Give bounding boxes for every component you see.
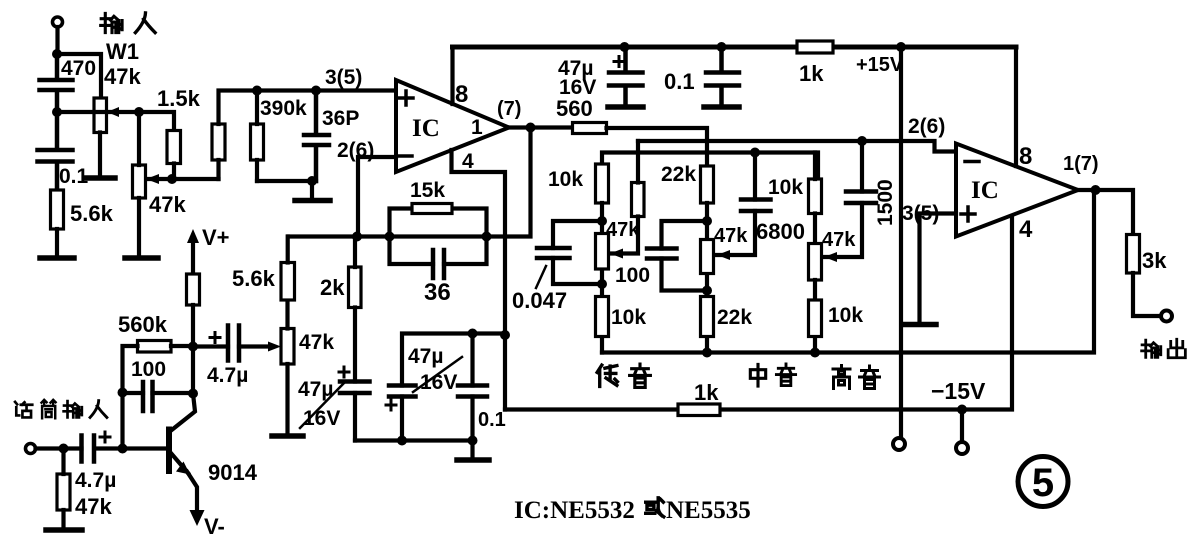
wire: tone row2 to opamp2	[638, 141, 956, 152]
label IC type note	[514, 497, 751, 524]
node dot bass lower	[597, 279, 607, 289]
svg-text:47k: 47k	[104, 64, 141, 89]
node dot collector top	[188, 342, 198, 352]
node: input terminal	[53, 17, 63, 27]
label: 输入 input	[101, 13, 155, 33]
node dot rail x901	[896, 42, 906, 52]
svg-text:IC:NE5532: IC:NE5532	[514, 497, 635, 524]
op-amp U2 plus	[961, 207, 975, 221]
svg-text:2k: 2k	[320, 275, 345, 300]
capacitor 4.7u out	[193, 326, 268, 388]
node dot 390k top	[252, 86, 262, 96]
svg-text:36: 36	[424, 279, 451, 306]
node dot bottom row x402	[397, 436, 407, 446]
potentiometer 47k mic	[281, 300, 334, 434]
svg-text:4.7µ: 4.7µ	[207, 364, 248, 387]
node dot ground 36P	[307, 176, 317, 186]
svg-text:100: 100	[131, 358, 166, 381]
resistor 1k top	[797, 41, 833, 86]
node dot feedback A	[352, 232, 362, 242]
svg-text:560k: 560k	[118, 312, 168, 337]
svg-text:3k: 3k	[1142, 248, 1167, 273]
svg-text:390k: 390k	[260, 97, 307, 120]
label 中音 mid	[750, 364, 795, 386]
svg-text:4: 4	[462, 150, 474, 173]
wire: U2 noninverting to ground	[920, 214, 957, 323]
node dot mid lower	[702, 286, 712, 296]
resistor unlabeled series	[212, 91, 257, 180]
wire: W1 bottom to ground	[98, 133, 102, 177]
wire: pot 47k bottom to ground	[137, 198, 141, 256]
node dot rail treble	[810, 348, 820, 358]
capacitor 47u top	[558, 47, 643, 104]
node dot 100 left	[118, 388, 128, 398]
ground under 0.1 top	[704, 104, 739, 110]
resistor 560	[556, 96, 607, 134]
node dot U2 output	[1091, 185, 1101, 195]
svg-text:8: 8	[455, 81, 468, 108]
resistor 5.6k input	[51, 190, 114, 229]
resistor 10k treble top	[768, 153, 822, 244]
ground under 0.1 second	[470, 441, 474, 459]
svg-text:47µ: 47µ	[408, 345, 443, 368]
svg-text:(7): (7)	[497, 98, 521, 120]
wire: wiper row y=112	[57, 110, 139, 114]
wire: pot top from y112	[137, 112, 141, 165]
svg-text:10k: 10k	[768, 176, 803, 199]
capacitor 100 mid	[615, 221, 707, 291]
svg-text:3(5): 3(5)	[325, 66, 362, 89]
node dot bottom row x472	[468, 436, 478, 446]
capacitor 47u 16V second	[386, 345, 462, 441]
label 高音 treble	[833, 366, 880, 389]
resistor 10k bass bottom	[596, 297, 647, 337]
resistor 5.6k second	[232, 237, 295, 301]
node dot mid upper	[702, 216, 712, 226]
wire: to 1.5k	[139, 112, 174, 131]
svg-text:47k: 47k	[149, 192, 186, 217]
wire: +15 vertical to terminal	[899, 47, 903, 438]
op-amp U2 minus	[965, 160, 979, 164]
resistor 22k bottom	[701, 297, 753, 337]
resistor 390k	[251, 91, 308, 182]
wire: feedback row y236.5	[289, 234, 487, 238]
node dot mic x63	[59, 444, 69, 454]
capacitor 0.047	[512, 221, 602, 313]
arrow into mic pot	[268, 342, 281, 352]
node dot rail mid	[702, 348, 712, 358]
resistor 3k	[1127, 235, 1168, 317]
label circled figure 5	[1018, 457, 1068, 507]
svg-text:47k: 47k	[299, 331, 334, 354]
svg-text:9014: 9014	[208, 460, 258, 485]
capacitor 36 feedback	[390, 237, 487, 307]
label 低音 bass	[597, 364, 650, 387]
resistor 2k	[320, 237, 361, 382]
svg-text:0.047: 0.047	[512, 288, 567, 313]
wire: -15 terminal stub	[960, 410, 964, 443]
capacitor 0.1 top	[664, 47, 739, 104]
svg-text:NE5535: NE5535	[666, 497, 751, 524]
label 输出 output	[1142, 339, 1186, 357]
svg-text:5.6k: 5.6k	[232, 266, 276, 291]
node dot rail x721	[717, 42, 727, 52]
svg-text:15k: 15k	[410, 179, 445, 202]
svg-text:IC: IC	[971, 177, 999, 204]
node dot x139 y112	[134, 107, 144, 117]
svg-text:1: 1	[471, 116, 483, 139]
svg-text:V-: V-	[204, 514, 225, 539]
node dot 1500 top	[857, 136, 867, 146]
node: output terminal	[1161, 311, 1172, 322]
wire: mid column	[705, 203, 709, 353]
node dot -15 terminal	[957, 405, 967, 415]
svg-text:4.7µ: 4.7µ	[75, 469, 116, 492]
node dot 36P top	[311, 86, 321, 96]
potentiometer 47k input	[133, 165, 187, 217]
wire: U1 output to 560	[509, 125, 573, 129]
svg-text:1(7): 1(7)	[1063, 153, 1099, 175]
wire: -15V rail	[505, 214, 1012, 410]
W1 wiper arrow	[107, 107, 119, 117]
resistor 22k top	[661, 163, 714, 203]
op-amp U2 triangle	[956, 144, 1078, 237]
capacitor 6800	[717, 200, 805, 261]
svg-text:36P: 36P	[322, 107, 359, 130]
wire: U2 output	[1078, 190, 1133, 235]
potentiometer 47k treble	[809, 229, 857, 353]
node dot rail x624	[620, 42, 630, 52]
svg-text:10k: 10k	[611, 306, 646, 329]
svg-text:2(6): 2(6)	[908, 115, 945, 138]
node dot feedback C	[482, 232, 492, 242]
svg-text:100: 100	[615, 264, 650, 287]
capacitor 36P	[304, 91, 359, 182]
wire: bass column	[600, 203, 604, 353]
ground under 5.6k	[40, 255, 74, 261]
wire: node A to W1 top	[57, 54, 101, 98]
ground under mic pot	[272, 433, 303, 439]
svg-text:IC: IC	[412, 115, 440, 142]
resistor 47k bass wiper	[610, 141, 644, 259]
wire: tone row3	[602, 153, 818, 200]
svg-text:1k: 1k	[694, 380, 719, 405]
wire: tone bottom rail to output	[602, 190, 1094, 353]
capacitor 47u 16V first	[298, 367, 370, 441]
resistor 560k	[118, 312, 193, 393]
node dot 6800 top	[750, 148, 760, 158]
wire: input terminal down	[55, 27, 59, 54]
wire: 1.5k bottom row y179	[146, 164, 219, 180]
resistor 10k treble bottom	[809, 300, 864, 337]
capacitor 0.1 second	[458, 334, 506, 441]
ground under W1	[85, 175, 115, 181]
potentiometer 47k mid	[701, 225, 749, 274]
svg-text:47k: 47k	[822, 229, 856, 251]
ground under 47k pot	[125, 255, 158, 261]
pin 8 wire op-amp U2	[1014, 47, 1018, 166]
node dot caps rail x472	[468, 329, 478, 339]
svg-text:W1: W1	[106, 39, 139, 64]
node dot x172 y179	[167, 174, 177, 184]
svg-text:+15V: +15V	[856, 54, 904, 76]
resistor 47k mic bias	[57, 449, 112, 529]
svg-text:4: 4	[1019, 216, 1033, 243]
node: mic terminal	[26, 444, 36, 454]
svg-text:8: 8	[1019, 143, 1032, 170]
op-amp U1 triangle	[396, 80, 509, 172]
potentiometer 47k bass	[596, 219, 641, 269]
svg-text:−15V: −15V	[931, 378, 986, 404]
resistor 1.5k	[157, 86, 201, 164]
ground under 47u top	[608, 104, 643, 110]
V+ arrow	[187, 225, 230, 274]
potentiometer W1 47k	[94, 39, 141, 133]
wire: mic terminal row	[36, 446, 166, 450]
wire: inverting input U1	[358, 157, 396, 237]
node dot bass upper	[597, 216, 607, 226]
wire: 5.6k to ground	[55, 229, 59, 256]
capacitor 100 base	[123, 358, 194, 411]
svg-text:V+: V+	[202, 225, 230, 250]
op-amp U1 plus	[399, 91, 413, 105]
ground op2 plus	[903, 322, 936, 328]
svg-text:5.6k: 5.6k	[70, 201, 114, 226]
svg-text:5: 5	[1032, 461, 1054, 505]
node dot 100 right	[188, 389, 198, 399]
wire: 560 to 22k top	[607, 128, 708, 166]
label 话筒输入 mic input	[15, 400, 107, 418]
svg-text:10k: 10k	[548, 168, 583, 191]
svg-text:1500: 1500	[874, 179, 897, 226]
node: +15 terminal	[893, 438, 905, 450]
svg-text:6800: 6800	[756, 219, 805, 244]
transistor Q1 9014	[169, 394, 258, 540]
resistor 15k feedback	[390, 179, 487, 237]
pin 4 wire op-amp U1 to V- rail	[452, 150, 506, 410]
node dot caps rail pin4	[500, 330, 510, 340]
svg-text:22k: 22k	[717, 306, 752, 329]
svg-text:560: 560	[556, 96, 593, 121]
wire: collector column	[191, 347, 195, 394]
op-amp U1 minus	[398, 154, 412, 158]
svg-text:1k: 1k	[799, 61, 824, 86]
wire: 100 left down to base row	[120, 393, 124, 449]
capacitor 1500	[824, 141, 897, 262]
node A junction dot	[52, 49, 62, 59]
node dot U1 output	[526, 123, 536, 133]
node dot feedback B	[385, 232, 395, 242]
svg-text:0.1: 0.1	[478, 409, 506, 431]
node dot base row x122	[118, 444, 128, 454]
svg-text:47k: 47k	[606, 219, 640, 241]
resistor collector load	[187, 274, 200, 347]
capacitor 4.7u mic	[75, 432, 116, 492]
resistor 10k bass top	[548, 164, 609, 203]
pin 8 wire op-amp U1	[450, 47, 454, 104]
ground under mic 47k	[46, 527, 82, 533]
resistor 1k bottom	[678, 380, 720, 416]
capacitor 470	[40, 54, 97, 112]
wire: output feedback drop	[487, 128, 531, 237]
wire: top +15 rail	[453, 45, 1017, 50]
svg-text:1.5k: 1.5k	[157, 86, 201, 111]
svg-text:470: 470	[61, 57, 96, 80]
wire: caps top rail	[402, 334, 505, 386]
svg-text:0.1: 0.1	[664, 69, 695, 94]
capacitor 0.1 input	[38, 112, 89, 190]
svg-text:22k: 22k	[661, 163, 696, 186]
ground under 36P	[310, 181, 314, 198]
node: -15 terminal	[956, 442, 968, 454]
svg-text:10k: 10k	[828, 304, 863, 327]
node dot left column y112	[52, 107, 62, 117]
wire: 390k bottom to ground node	[257, 179, 316, 183]
svg-text:47k: 47k	[75, 494, 112, 519]
wire: bottom decouple row	[355, 438, 473, 442]
svg-text:47k: 47k	[714, 225, 748, 247]
wire: noninverting row y90.5	[257, 88, 396, 92]
